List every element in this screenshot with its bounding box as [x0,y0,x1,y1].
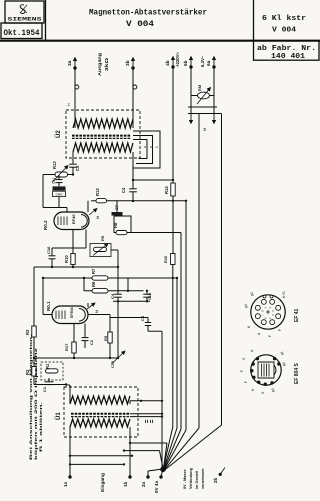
svg-text:a: a [143,146,147,148]
resistor R8 [116,231,127,235]
svg-text:C4: C4 [121,187,126,193]
svg-text:Magnetton-Abtastverstärker: Magnetton-Abtastverstärker [89,9,207,18]
wire R9 to C4 column [111,249,118,251]
svg-text:4: 4 [271,314,275,316]
wire Gl to tube [58,197,60,208]
svg-text:V 004: V 004 [272,27,297,35]
resistor R17 [72,342,76,353]
svg-text:Verbindung: Verbindung [189,467,193,489]
wire rail x177 [176,278,178,428]
wire to C3 [110,317,148,319]
wire C3 to rail [148,330,162,332]
terminal 0V 4a [159,475,162,478]
svg-text:R6: R6 [91,281,96,287]
svg-text:F: F [244,381,248,383]
socket EF 41 [251,295,285,329]
svg-text:6 Kl kstr: 6 Kl kstr [262,15,306,23]
resistor R10 cathode [72,248,74,254]
terminal 2a [146,475,149,478]
resistor R5 [108,332,112,343]
svg-text:C13: C13 [111,361,115,368]
svg-text:SIEMENS: SIEMENS [8,16,43,23]
tube Rö2 EF40 envelope [54,212,89,230]
svg-text:F: F [268,335,272,337]
svg-text:K: K [251,388,255,391]
svg-text:vornehmen: vornehmen [201,468,205,489]
svg-text:+220V≈: +220V≈ [175,51,180,67]
wire nest to C4 node [132,152,134,189]
svg-text:C11: C11 [52,178,56,184]
Rö1 anode arrow M [87,303,95,309]
transformer Ü1 box [64,387,138,437]
svg-text:3kΩ: 3kΩ [104,57,109,71]
svg-text:R8: R8 [113,222,118,228]
Ü1 core leads [130,413,162,415]
svg-text:1b: 1b [123,481,128,487]
svg-text:DMR: DMR [56,193,64,197]
fan diagonal from heater rail [165,428,199,469]
wire heater rail 1 [198,114,200,429]
wire 6b down [190,67,192,114]
svg-text:Bei Anschaltung von Magneton-: Bei Anschaltung von Magneton- [28,333,33,460]
svg-text:R14: R14 [164,186,169,194]
svg-text:EF40: EF40 [71,214,76,224]
svg-text:0V - Masse: 0V - Masse [183,469,187,489]
wire 6a down [213,67,215,114]
svg-text:EF804: EF804 [70,307,74,318]
svg-text:g2: g2 [250,292,254,296]
svg-text:Okt.1954: Okt.1954 [3,29,39,38]
svg-text:2a: 2a [141,481,146,487]
svg-text:im Gestell: im Gestell [195,471,199,489]
resistor RM trimmer [191,95,198,97]
wire input to Ü1 [66,384,70,386]
capacitor C1 [48,378,50,381]
capacitor C15 [146,291,148,294]
svg-text:C5: C5 [75,165,80,171]
svg-text:Rö.2: Rö.2 [43,220,48,230]
grid rail Rö1 [42,278,44,315]
svg-text:EF 804 S: EF 804 S [294,362,300,384]
resistor R3 [32,326,36,337]
wire heater rail 2 [221,114,223,426]
heater bus [188,106,217,108]
resistor R14 [171,183,175,196]
svg-text:R9: R9 [100,235,105,241]
terminal 3a [73,66,76,69]
bottom input wire [34,384,66,386]
wire 3a to U2 [74,68,76,128]
node line y358 [34,357,118,359]
svg-text:C1: C1 [42,386,47,392]
svg-text:M: M [96,216,100,219]
Ü2 primary winding [73,143,133,152]
Rö1 anode wire [87,303,89,307]
left rail upper [42,175,44,208]
svg-text:Ausgang: Ausgang [97,52,102,76]
svg-text:R7: R7 [91,268,96,274]
svg-text:R1: R1 [45,363,50,369]
wire Ü2 returns nest outer [133,131,160,168]
heater arrows [190,114,192,124]
Siemens logo box [5,1,44,23]
input bus lower [70,463,124,465]
resistor R10b anode2 [171,254,175,265]
svg-text:6,3V~: 6,3V~ [200,55,205,67]
Ü1 secondary winding [70,396,130,404]
capacitor C14 column [114,293,122,295]
grid column down [117,301,119,358]
fan diagonal long from 2b rail [165,425,221,469]
resistor R12 [91,200,96,202]
capacitor C16 [51,248,53,255]
riser 2a hook [147,471,149,477]
svg-text:R10: R10 [163,255,168,263]
Ü2 secondary winding [73,119,133,128]
wire R8 loop [114,216,131,233]
svg-text:k: k [155,146,159,148]
capacitor C11 [58,175,60,180]
svg-text:C7: C7 [114,204,119,210]
svg-text:6a: 6a [206,60,212,66]
pin ticks [145,420,147,423]
fan diagonal from anode rail [164,430,186,469]
svg-text:Ü1: Ü1 [55,412,62,420]
Rö2 anode arrow M [89,209,97,216]
resistor R2 [32,367,36,377]
svg-text:RM: RM [197,84,202,91]
terminal 1a [68,475,71,478]
header divider right [253,0,255,41]
svg-text:3: 3 [271,310,275,312]
Rö1 grid wire [43,314,52,316]
cathode bus [52,247,86,249]
Ü1 core [71,413,130,415]
svg-text:S: S [261,391,265,394]
svg-text:1: 1 [264,307,268,309]
fan diagonal from R14 rail [163,427,173,469]
fan diagonal from R8 rail [164,429,181,469]
wire R8 to down rail [127,232,181,234]
capacitor C2 [82,337,89,339]
svg-text:Eingang: Eingang [100,473,106,492]
node line y267 [34,266,118,268]
svg-text:7: 7 [261,314,265,316]
fan diagonal from rail x177 [164,428,177,469]
svg-text:140 401: 140 401 [271,53,305,61]
header rule [0,40,320,42]
input riser 1a [69,427,71,477]
svg-text:Ü2: Ü2 [55,130,62,138]
terminal 2b [219,473,222,476]
Ü2 core [72,135,131,137]
svg-text:R10: R10 [64,255,69,263]
svg-text:C16: C16 [46,246,51,254]
svg-text:M: M [203,128,207,131]
transformer Ü2 box [66,110,140,158]
wire R13 node [43,174,55,176]
svg-text:3a: 3a [67,60,73,66]
svg-text:g3: g3 [244,304,248,308]
terminal 6a [212,65,215,68]
svg-text:EF 41: EF 41 [294,308,300,322]
node line y301 [113,300,150,302]
svg-text:A: A [250,349,254,352]
svg-text:8: 8 [261,310,265,312]
svg-text:3b: 3b [125,60,131,66]
svg-text:köpfen mit 200 Ω Impedanz: köpfen mit 200 Ω Impedanz [33,348,38,460]
svg-text:ab Fabr. Nr.: ab Fabr. Nr. [257,45,316,53]
svg-text:A: A [257,332,261,335]
node line y290 R6 [84,290,144,292]
svg-text:V 004: V 004 [126,20,154,29]
wire y450 to ground [124,450,160,452]
grid feed wire [43,207,67,209]
rectifier Gl dark block [53,186,66,190]
svg-text:R12: R12 [95,188,100,196]
socket EF 804 S [251,355,281,385]
capacitor C4 [129,188,137,190]
capacitor C3 [147,318,149,323]
svg-text:C3: C3 [140,315,145,321]
capacitor C7 electrolytic [116,201,118,212]
svg-text:M: M [95,310,99,313]
svg-text:R 1 ablöten.: R 1 ablöten. [38,402,43,452]
svg-text:H: H [67,103,71,106]
svg-text:2b: 2b [213,477,218,483]
resistor R7 [92,276,108,280]
wire 3b to U2 [132,68,134,128]
Rö2 anode riser [87,201,89,212]
fabr nr box [254,41,320,61]
resistor R6 [92,289,108,293]
Rö1 pins [73,324,75,343]
svg-text:0V 4a: 0V 4a [154,481,159,493]
svg-text:g1: g1 [280,351,284,355]
svg-text:5: 5 [268,317,272,319]
terminal 3b [131,66,134,69]
svg-text:4b: 4b [165,60,171,66]
Ü1 primary right lead [129,427,131,443]
svg-text:2: 2 [268,307,272,309]
node wire to R14 [133,179,173,181]
wire primary to ground [130,442,167,444]
svg-text:R17: R17 [64,343,69,351]
date box Okt.1954 [1,23,42,39]
wire Ü2 returns nest middle [133,136,153,164]
ground node blob [160,467,166,473]
Rö2 electrodes [57,217,59,226]
input bus upper [70,455,132,457]
Ü2 primary left lead to C5 [72,152,74,164]
svg-text:R5: R5 [103,335,108,341]
wire Ü2 returns nest inner [133,140,147,159]
svg-text:g: g [149,146,153,148]
anode line to R14 column [107,200,187,202]
riser 1b [129,443,131,477]
header divider left [45,0,47,41]
trimmer R9 box [90,244,111,257]
svg-text:K: K [247,325,251,328]
svg-text:C2: C2 [89,339,94,345]
svg-text:K+S: K+S [282,291,286,298]
trimmer C13 [112,351,126,364]
svg-text:6b: 6b [183,60,189,66]
Ü1 primary winding [70,419,130,427]
left rail x34 [33,267,35,326]
svg-text:1a: 1a [63,481,68,487]
capacitor C5 [69,163,77,165]
svg-text:g3: g3 [271,388,275,392]
resistor R13 trimmer [55,172,68,177]
svg-text:C15: C15 [148,293,152,300]
Rö2 pins [72,230,74,249]
svg-text:R13: R13 [52,161,57,169]
Ü1 secondary right lead [129,401,131,404]
tube Rö1 EF804S envelope [52,306,88,324]
svg-text:C4: C4 [110,293,115,299]
terminal 1b [128,475,131,478]
Rö1 electrodes [55,311,57,320]
svg-text:g2: g2 [282,362,286,366]
node line y278 [43,277,177,279]
svg-text:S: S [242,357,246,360]
wire +220V from 4b [172,67,174,183]
svg-text:F: F [240,370,244,372]
svg-text:F: F [278,329,282,331]
rail x162 [161,331,163,469]
svg-text:6: 6 [264,317,268,319]
resistor R1 dashed box [41,362,63,380]
svg-text:Rö.1: Rö.1 [46,301,51,311]
terminal 4b +220V [171,65,174,68]
terminal 6b [189,65,192,68]
